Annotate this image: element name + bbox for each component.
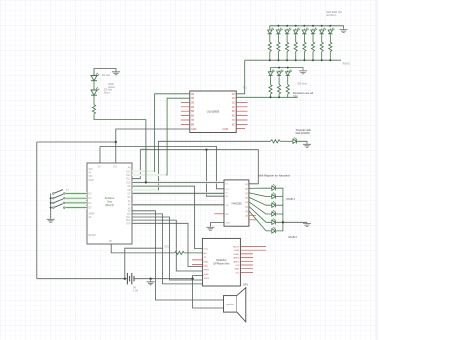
ground battery [150,279,152,281]
svg-text:VCC: VCC [164,245,170,249]
wire branch to shift pin [206,150,224,197]
svg-text:ULN2803: ULN2803 [207,110,220,114]
ULN unconnected right pin stubs [236,102,247,128]
svg-text:ROW1: ROW1 [343,63,351,66]
LED L6 [311,28,317,60]
wire resistor to DFPlayer [184,252,203,254]
wire S3 to D4 [65,202,87,204]
wire H3 net rail [132,150,258,184]
wire from Arduino D0 [111,244,174,253]
wire battery left [37,278,127,280]
LED RGB1 blu [271,201,277,207]
svg-text:Rail (D2/D5): Rail (D2/D5) [296,131,310,135]
svg-text:4C: 4C [232,106,235,109]
wire U3 gnd pin [210,223,224,226]
wire diag Q to RGB led6 [249,211,271,231]
wire to net [94,114,146,119]
Arduino right pin labels [126,167,131,226]
wire D13 to shift pin1 with LED chain junction [132,181,224,183]
switch labels [66,190,69,206]
wire H2 5V rail [100,147,224,189]
junction dots rail row1 [277,25,331,27]
svg-text:RX: RX [204,253,208,255]
LED RGB2 red [271,210,277,216]
switch S1 [53,190,66,195]
wire rgb bus to ground [283,221,307,223]
junction dots common rail [50,197,52,199]
svg-text:BUSY: BUSY [233,247,239,249]
svg-text:1B: 1B [191,93,194,96]
wire to shift pin6 [132,204,224,206]
svg-text:SPK2: SPK2 [204,278,210,280]
svg-text:DS: DS [225,183,229,185]
wire diag Q to RGB led5 [249,206,271,222]
svg-text:GND: GND [89,180,94,182]
switch S4 [53,204,66,209]
svg-text:8B: 8B [191,123,194,126]
ground torpedo [303,143,311,147]
svg-text:1C: 1C [232,93,235,96]
wire ULN pin2 input from Arduino via riser [132,98,190,175]
svg-text:(Rev3): (Rev3) [105,203,113,207]
IC U3 body [224,180,249,226]
svg-text:6C: 6C [232,115,235,118]
junction battery plus [124,278,126,280]
svg-text:6B: 6B [191,115,194,118]
svg-text:8C: 8C [232,123,235,126]
LED D1 [91,73,99,83]
svg-text:4B: 4B [191,106,194,109]
junction dots rail row2 [270,67,289,99]
LED L1 [268,28,274,60]
wire ULN pin1 input from Arduino via riser [132,94,190,172]
wire to DFPlayer pin1 [132,186,203,249]
IC U1 body [87,163,132,244]
svg-text:74HC595: 74HC595 [231,202,242,205]
resistor R10 [175,251,185,254]
svg-text:VCC: VCC [204,249,209,251]
svg-text:7B: 7B [191,119,194,122]
svg-text:D1 red: D1 red [102,73,110,77]
wire torpedo rail from Arduino [132,141,271,190]
junction rgb bus [282,221,284,223]
wire S4 to D5 [65,207,87,209]
LED L10 [277,70,283,98]
svg-text:GND: GND [225,223,230,225]
svg-text:ADK1: ADK1 [233,260,239,263]
svg-text:SP1: SP1 [243,283,248,287]
LED L4 [294,28,300,60]
wire to ground [298,141,307,143]
svg-text:AREF: AREF [89,213,96,216]
wire diag Q to RGB led3 [249,197,271,205]
svg-text:USB+: USB+ [233,254,239,256]
wire DFPlayer spk2 to speaker [193,276,224,309]
junction H3 branch [205,149,207,151]
svg-text:Orange: Orange [141,148,150,151]
ULN left pin labels [191,93,197,131]
svg-text:D10: D10 [126,182,131,184]
wire cathode bus rgb [277,188,283,231]
U4 left pin labels [204,249,210,280]
U4 right stubs short [240,254,253,273]
U4 left unconnected stubs [192,260,203,265]
wire [93,97,95,104]
svg-text:DFPlayer Mini: DFPlayer Mini [214,262,230,265]
svg-text:USB-: USB- [234,250,239,252]
ground U3 [206,226,214,230]
LED RGB1 red [271,184,277,190]
wire to DFPlayer via x176 [132,220,203,271]
LED L5 [302,28,308,60]
LED RGB2 grn [271,218,277,224]
svg-text:DAC: DAC [204,265,209,268]
svg-text:VCC: VCC [225,189,230,191]
ground row2 [299,70,307,74]
LED torpedo [292,137,298,143]
wire diag Q to RGB led4 [249,202,271,214]
wire battery right [134,278,193,280]
junction battery minus [149,278,151,280]
ground row1 [340,28,348,32]
switch S2 [53,194,66,199]
wire speaker plus [132,211,224,300]
U3 right red stubs [249,215,256,220]
svg-text:GND: GND [234,269,239,271]
svg-text:5mm: 5mm [104,91,110,95]
svg-text:speaker: speaker [226,303,234,306]
svg-text:red 5mm: red 5mm [326,13,336,17]
wire bus row2 to ULN pin2 [236,96,297,98]
svg-text:GN: GN [113,167,117,169]
svg-text:1.5A: 1.5A [133,290,138,293]
svg-text:SCL: SCL [126,217,131,219]
wire S1 to D2 [65,193,87,195]
junction dots bus row1 [269,59,332,61]
wire bus row1 [245,59,341,61]
LED RGB1 grn [271,193,277,199]
wire [93,83,95,88]
Arduino left pin labels [89,169,97,237]
svg-text:3C: 3C [232,101,235,104]
svg-text:TX: TX [128,211,131,213]
resistor R11 [271,140,281,143]
svg-text:IOR: IOR [126,223,130,225]
svg-text:GND: GND [191,128,197,131]
LED L11 [286,70,292,98]
highlight glow on arduino pin wires [132,151,223,206]
highlighted wires switches to Arduino [65,192,87,209]
svg-text:5C: 5C [232,110,235,113]
junction LED chain on D13 wire [145,181,147,183]
svg-text:330: 330 [293,95,298,99]
svg-text:D12: D12 [126,175,131,177]
wire [280,140,292,142]
LED RGB2 blu [271,227,277,233]
U3 unconnected left stub [214,213,224,215]
svg-text:3B: 3B [191,101,194,104]
svg-text:VIN: VIN [89,176,93,178]
wire to DFPlayer via x183 [132,223,203,266]
battery BT1 plates [127,273,134,284]
U4 right pin labels [233,247,240,275]
wire switch common rail [50,194,52,219]
svg-text:GND: GND [204,274,209,276]
svg-text:5V: 5V [98,167,101,169]
svg-text:RESET: RESET [89,235,97,237]
wire diag Q to RGB led1 [249,187,271,189]
LEDs and resistors row1 [245,28,341,60]
wire LED chain riser [145,120,147,183]
LED L7 [320,28,326,60]
junction gnd net at battery wire [191,278,193,280]
U3 right pin labels [245,184,249,218]
ULN unconnected left pin stubs [181,102,190,124]
wire rail row2 [271,68,304,71]
svg-text:RGB 1: RGB 1 [287,197,296,201]
LED L9 [268,70,274,98]
ground RGB [303,222,311,226]
svg-text:DAC: DAC [204,260,209,263]
svg-text:OE: OE [225,205,229,207]
svg-text:RX: RX [127,214,131,216]
svg-text:Shift Register for Nanoleaf: Shift Register for Nanoleaf [258,174,290,178]
svg-text:R 1: R 1 [243,87,248,90]
junction H1/ULN gnd riser [115,141,117,143]
svg-text:ADK2: ADK2 [233,257,239,260]
svg-text:5B: 5B [191,110,194,113]
svg-text:SPK1: SPK1 [204,270,210,272]
IC U4 body [202,238,240,286]
ground [112,71,120,75]
U3 left pin labels [225,183,230,224]
ULN right pin labels [222,93,235,131]
svg-text:5V: 5V [89,173,92,175]
wire rail row1 [270,26,344,29]
wire H1 left rail [37,142,116,279]
svg-text:7C: 7C [232,119,235,122]
ground switches [47,218,55,222]
wire diag Q to RGB led2 [249,193,271,197]
svg-text:D13: D13 [126,171,131,173]
wire to shift pin3 [132,192,224,194]
LED L8 [328,28,334,60]
svg-text:MR: MR [225,214,229,216]
wire LED chain top to ground [94,69,116,74]
LED L2 [276,28,282,60]
resistor R9 [92,105,95,115]
speaker body [224,288,246,322]
svg-text:COM: COM [222,128,228,131]
svg-text:2C: 2C [232,97,235,100]
svg-text:RGB 2: RGB 2 [289,235,298,239]
LED D2 [91,87,99,97]
wire to DFPlayer via x162 [132,214,203,284]
svg-text:3V3: 3V3 [89,169,94,171]
svg-text:330 ohm: 330 ohm [297,82,307,86]
svg-text:SDA: SDA [126,219,131,222]
switch S3 [53,199,66,204]
LED L3 [285,28,291,60]
wire ULN GND pin to left rail [116,129,190,163]
wire battery plus to VCC flag [125,248,163,279]
svg-text:2B: 2B [191,97,194,100]
U4 right stubs long [240,247,266,251]
IC U2 body [190,91,236,133]
wire to DFPlayer via x169 [132,217,203,280]
wire S2 to D3 [65,197,87,199]
wire row1 bus to ULN pin1 [236,60,245,94]
svg-text:SH: SH [225,196,228,198]
